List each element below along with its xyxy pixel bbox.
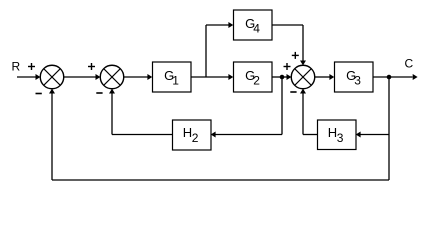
plus sign at summer 1 <box>28 63 35 70</box>
wire G2 to S3 <box>272 74 291 80</box>
summing junction S2 <box>100 65 124 89</box>
wire H2 to S2 bottom <box>109 89 172 135</box>
plus sign at summer 2 <box>88 63 95 70</box>
minus sign at summer 3 <box>290 91 296 93</box>
plus sign left at summer 3 <box>284 63 291 70</box>
junction dot after G2 <box>280 75 285 80</box>
block G1 <box>153 62 192 92</box>
minus sign at summer 1 <box>36 93 42 95</box>
junction dot at output <box>387 75 392 80</box>
summing junction S1 <box>40 65 64 89</box>
svg-text:3: 3 <box>354 74 361 88</box>
block G4 <box>234 10 273 40</box>
svg-text:4: 4 <box>253 22 260 36</box>
svg-text:R: R <box>12 60 21 74</box>
wire S3 to G3 <box>315 74 335 80</box>
svg-text:2: 2 <box>253 74 260 88</box>
minus sign at summer 2 <box>96 92 102 94</box>
summing junction S3 <box>291 65 315 89</box>
plus sign top at summer 3 <box>292 52 299 59</box>
wire G1 to G2 <box>191 74 233 80</box>
wire output tap down to H3 <box>356 77 389 138</box>
svg-text:2: 2 <box>192 131 199 145</box>
wire G2 tap down to H2 <box>211 77 282 138</box>
svg-text:3: 3 <box>337 131 344 145</box>
block G2 <box>234 62 273 92</box>
block G3 <box>335 62 374 92</box>
wire S1 to S2 <box>64 74 101 80</box>
wire H3 to S3 bottom <box>300 89 317 135</box>
wire G4 to S3 top <box>272 25 306 65</box>
block H3 <box>318 120 357 150</box>
wire branch after G1 up to G4 <box>206 22 233 77</box>
wire S2 to G1 <box>124 74 153 80</box>
svg-text:1: 1 <box>172 74 179 88</box>
wire G3 to output C <box>373 74 418 80</box>
wire outer feedback loop <box>49 89 389 180</box>
wire R input <box>17 74 40 80</box>
svg-text:C: C <box>405 57 414 71</box>
block H2 <box>173 120 212 150</box>
